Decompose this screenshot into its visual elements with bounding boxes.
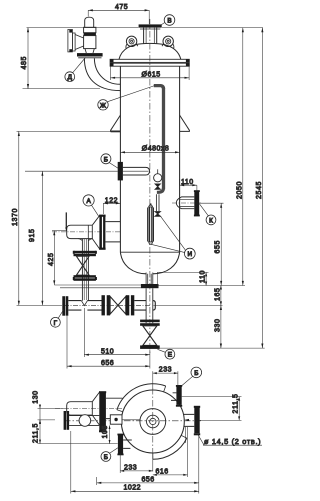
dimension 110 horizontal (K nozzle) xyxy=(180,179,197,191)
support lug right xyxy=(180,115,190,131)
svg-text:Е: Е xyxy=(168,352,172,359)
bottom piping axis extension right xyxy=(154,304,223,306)
dimension 510 xyxy=(84,308,150,357)
plan A cone xyxy=(92,392,99,425)
svg-text:122: 122 xyxy=(105,197,118,204)
branch pipe below A xyxy=(82,239,88,301)
pipe to tee under vessel xyxy=(134,301,155,311)
svg-text:Ж: Ж xyxy=(100,102,106,109)
nozzle B (left) : internal bullet pipe xyxy=(123,167,150,175)
shell band arc bottom-right xyxy=(153,438,187,459)
plan G flange pair xyxy=(64,411,67,430)
run valve bowtie xyxy=(110,297,126,315)
bottom nozzle flange (black) xyxy=(141,284,159,288)
hole callout O14,5 xyxy=(198,434,263,445)
bottom dim row 233 xyxy=(120,454,153,474)
E valve bottom flange xyxy=(140,345,160,349)
dimension 485 xyxy=(27,28,29,89)
dimension 110 vertical xyxy=(205,272,207,285)
plan A barrel xyxy=(67,402,93,415)
safety valve D assembly xyxy=(85,17,94,27)
plan A nozzle axis xyxy=(55,407,122,409)
bottom dim row 616 xyxy=(153,427,188,477)
label V (top nozzle) xyxy=(161,23,165,26)
svg-text:475: 475 xyxy=(115,4,128,11)
bottom piping axis extension left xyxy=(17,304,63,306)
485 bottom extension (elbow axis) xyxy=(23,88,101,90)
label I (float internals) xyxy=(160,216,185,250)
plan pipe walls xyxy=(69,416,99,426)
label D (safety valve) xyxy=(73,58,86,73)
svg-text:130: 130 xyxy=(32,390,39,403)
bottom piping axis dash-dot xyxy=(64,304,150,306)
svg-text:211,5: 211,5 xyxy=(232,394,239,414)
center circles (bottom nozzle projection) xyxy=(140,409,166,435)
svg-text:Б: Б xyxy=(194,370,198,377)
svg-text:233: 233 xyxy=(159,367,172,374)
dimension 165 xyxy=(220,286,222,306)
dimension 122 xyxy=(103,203,120,214)
branch valve top flange pair xyxy=(74,251,96,254)
dim 211,5 right xyxy=(238,397,240,421)
svg-text:Ø480x8: Ø480x8 xyxy=(142,145,170,152)
K axis dash-dot xyxy=(172,202,201,204)
E valve bowtie xyxy=(143,326,157,346)
float valve (upper bowtie) xyxy=(155,184,160,189)
plan K stub xyxy=(184,414,194,426)
label B (left nozzle) xyxy=(109,163,118,169)
svg-text:И: И xyxy=(188,251,193,258)
label K (right nozzle) xyxy=(199,204,208,216)
svg-text:655: 655 xyxy=(215,240,222,253)
plan B1 stub xyxy=(171,393,176,401)
lug level extension line xyxy=(17,130,111,132)
svg-text:330: 330 xyxy=(214,319,221,332)
svg-text:К: К xyxy=(209,217,213,224)
svg-text:510: 510 xyxy=(101,349,114,356)
dimension 655 xyxy=(220,203,222,285)
extension line y348.1 (E valve bottom) xyxy=(160,347,265,349)
extension line y272.4 (head bottom) xyxy=(157,272,209,287)
plan B2 stub xyxy=(123,440,132,448)
plan A stub xyxy=(106,398,123,418)
dimension 2545 xyxy=(261,28,263,349)
E valve top flange pair xyxy=(140,320,160,323)
plan run valve rect + dot xyxy=(110,415,122,424)
top nozzle neck xyxy=(144,28,157,44)
support lug left xyxy=(111,115,121,131)
safety valve lower neck xyxy=(85,49,94,53)
branch valve bowtie xyxy=(76,256,89,275)
svg-text:616: 616 xyxy=(156,469,169,476)
nozzle A barrel xyxy=(67,225,93,238)
vertical tick line ending at A axis xyxy=(65,212,67,229)
dimension O480x8 xyxy=(120,151,179,153)
run valve right flange pair xyxy=(126,295,130,315)
svg-text:Б: Б xyxy=(104,156,108,163)
dimension 2050 xyxy=(242,28,244,286)
plan B2 axis ext xyxy=(38,443,118,445)
internal dip pipe (thick) with top hook xyxy=(154,86,164,190)
svg-text:В: В xyxy=(167,18,171,25)
lower bowtie valve xyxy=(155,212,161,217)
plan B1 flange bar xyxy=(176,386,181,405)
dimension O615 xyxy=(111,67,190,81)
svg-text:656: 656 xyxy=(142,476,155,483)
svg-text:165: 165 xyxy=(214,288,221,301)
svg-text:А: А xyxy=(86,198,91,205)
svg-text:1022: 1022 xyxy=(124,485,142,492)
run valve left flange pair xyxy=(102,295,105,315)
dim 130 left xyxy=(38,408,65,420)
float hanger tick xyxy=(157,169,159,173)
label Zh (dip pipe) xyxy=(108,86,155,102)
svg-text:915: 915 xyxy=(29,229,36,242)
A cone to flange xyxy=(92,216,99,249)
label B1 (plan top-right) xyxy=(182,376,193,386)
B axis extension line xyxy=(25,170,149,172)
bottom dished head xyxy=(120,252,179,274)
dim 233 top xyxy=(153,371,178,389)
label G (drain flange) xyxy=(58,309,64,318)
dimension 330 xyxy=(220,305,222,348)
svg-text:485: 485 xyxy=(21,56,28,69)
top extension line over safety valve xyxy=(27,27,263,29)
nozzle B flange (black bar on shell) xyxy=(118,162,123,181)
dimension 425 xyxy=(53,231,55,285)
bottom dim row 1022 xyxy=(71,431,199,494)
dome head xyxy=(119,43,181,59)
nozzle A axis dash-dot xyxy=(52,231,120,233)
main flange circle xyxy=(121,390,184,453)
dim 211,5 left xyxy=(39,420,41,444)
dim 105 xyxy=(109,425,111,443)
horizontal pipe walls xyxy=(68,301,101,311)
left lifting eye xyxy=(126,36,136,46)
float ball xyxy=(154,174,162,182)
dimension 656 (elevation) xyxy=(67,316,150,369)
svg-text:656: 656 xyxy=(101,360,114,367)
nozzle K (right) bullet pipe xyxy=(176,197,194,209)
nozzle K flange (black) xyxy=(194,191,199,215)
tee V joint xyxy=(81,301,87,306)
plan B2 flange bar xyxy=(118,435,123,454)
drop pipe to E valve xyxy=(146,288,153,323)
label B2 (plan bottom-left) xyxy=(110,448,118,454)
flange B (top nozzle flange, black bar) xyxy=(139,24,162,27)
bottom nozzle pipe xyxy=(146,273,153,285)
svg-text:233: 233 xyxy=(124,464,137,471)
svg-text:ø 14,5 (2 отв.): ø 14,5 (2 отв.) xyxy=(204,437,261,446)
svg-text:105: 105 xyxy=(102,425,109,438)
main flange pair (vessel top flange) xyxy=(110,59,189,62)
shell band arc top-left xyxy=(117,384,166,410)
svg-text:Г: Г xyxy=(54,320,58,327)
arrow at plan circle edge xyxy=(184,419,189,421)
A barrel joint line xyxy=(87,225,89,238)
svg-text:2050: 2050 xyxy=(237,181,244,199)
A axis thin extension to 425/915 xyxy=(52,230,66,232)
svg-text:110: 110 xyxy=(200,270,207,283)
vessel side nozzle of A xyxy=(105,222,120,242)
svg-text:Д: Д xyxy=(68,74,73,81)
label A (side valve) xyxy=(92,205,99,216)
svg-text:2545: 2545 xyxy=(256,181,263,199)
svg-text:Б: Б xyxy=(104,454,108,461)
svg-text:1370: 1370 xyxy=(12,208,19,226)
dimension 915 xyxy=(41,171,43,305)
A flange pair (black bars) xyxy=(99,216,102,249)
leader I second xyxy=(151,244,185,252)
svg-text:425: 425 xyxy=(48,253,55,266)
bottom head tangent seam xyxy=(120,251,179,253)
extension line y285.8 xyxy=(54,284,245,287)
displacer cylinder on axis xyxy=(148,207,154,242)
plan horizontal centerline xyxy=(64,420,201,422)
elbow pipe into vessel xyxy=(84,58,120,90)
plan vertical centerline xyxy=(152,388,154,456)
bottom dim row 656 xyxy=(97,436,199,494)
safety valve outlet cone + flange disc xyxy=(75,35,84,50)
vessel shell walls xyxy=(120,66,179,252)
svg-text:211,5: 211,5 xyxy=(32,423,39,443)
plan center axis ext right xyxy=(200,419,242,421)
plan tee circle xyxy=(79,415,91,427)
plan merged flange column (black) xyxy=(99,392,106,431)
right lifting eye xyxy=(163,36,173,46)
main vessel centerline xyxy=(149,19,151,353)
dimension 1370 xyxy=(18,131,20,305)
svg-text:Ø615: Ø615 xyxy=(142,72,161,79)
plan K flange bar xyxy=(194,407,199,433)
safety valve flange (black) xyxy=(77,53,103,56)
flange G (black pair) xyxy=(62,296,65,316)
plan B1 axis ext right xyxy=(182,396,242,398)
dip pipe bottom bend to float xyxy=(157,188,164,192)
branch valve bottom flange pair xyxy=(74,275,96,278)
second thin line near flange xyxy=(60,287,141,289)
lower pipe from bend xyxy=(156,194,159,211)
svg-text:110: 110 xyxy=(181,179,194,186)
label E (bottom valve) xyxy=(158,349,166,352)
dimension 475 xyxy=(88,9,149,11)
